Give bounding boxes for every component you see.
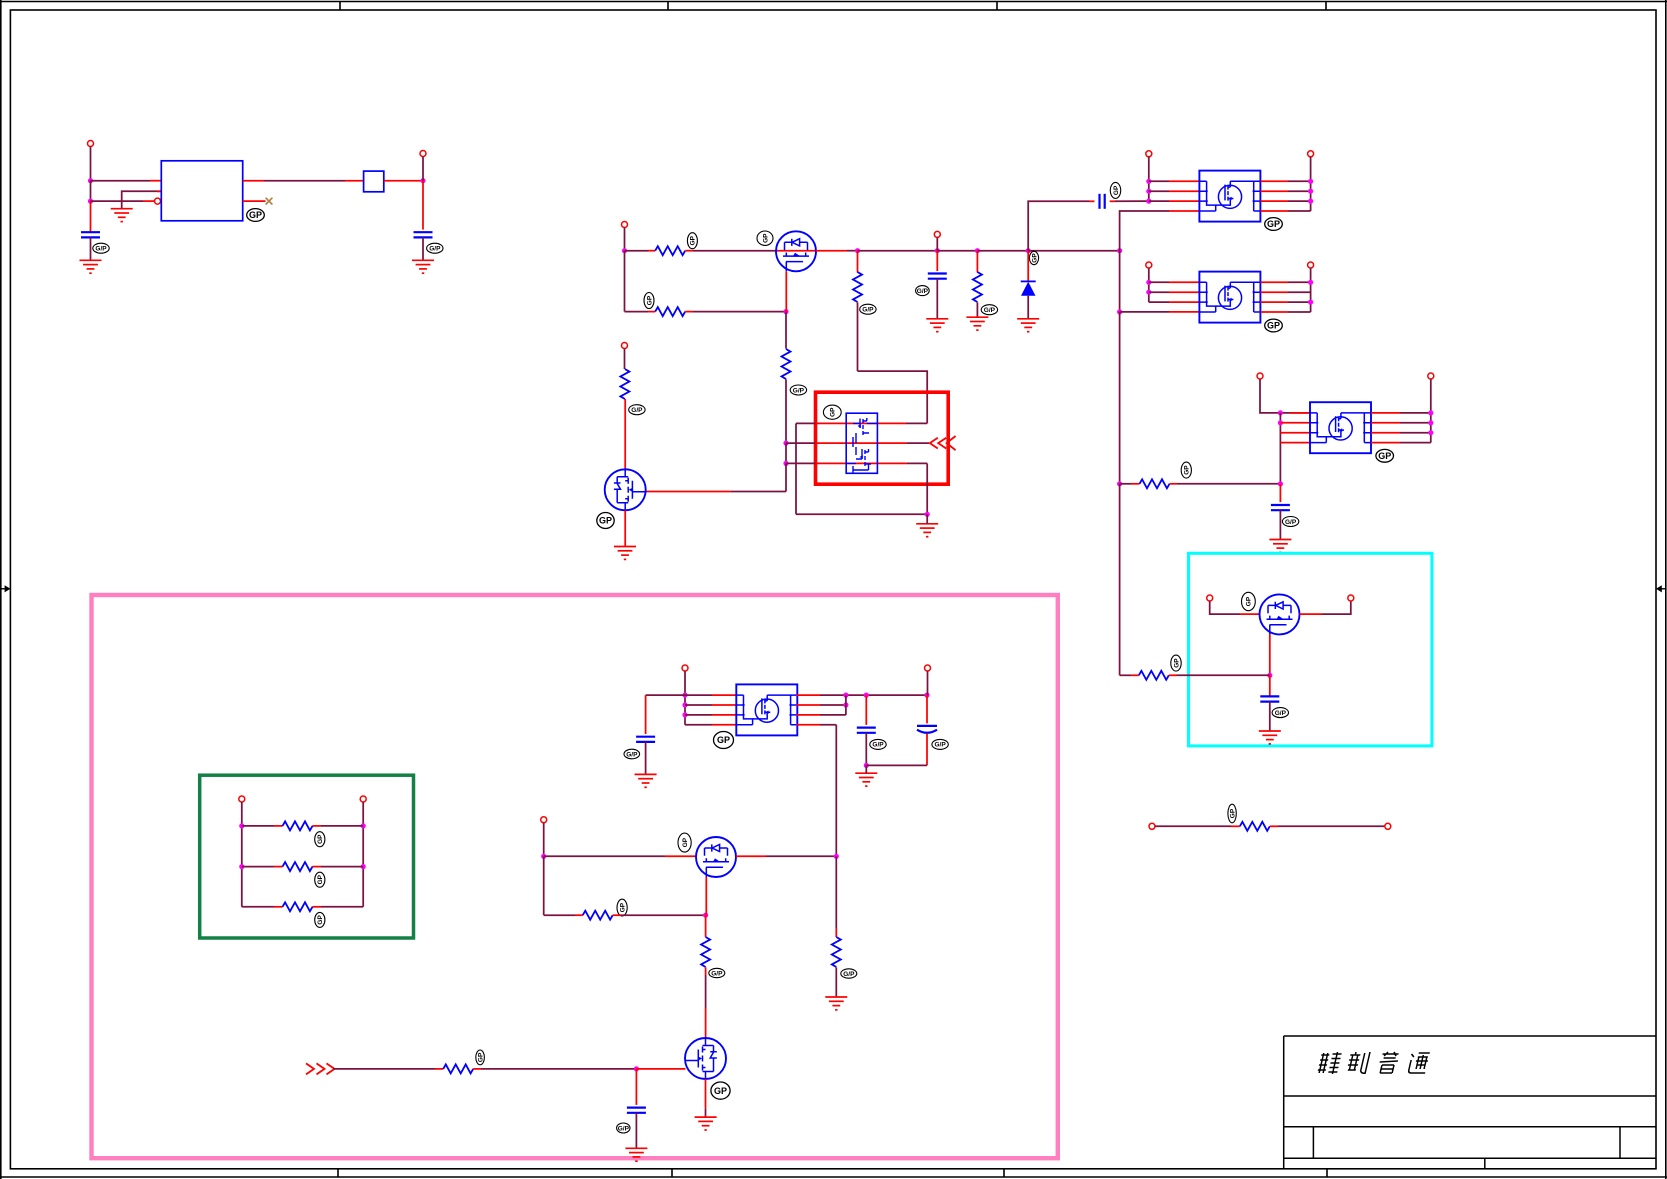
svg-text:GP: GP [1031, 253, 1038, 263]
junction [783, 441, 788, 446]
ground [1259, 731, 1281, 744]
label R13 [841, 969, 857, 978]
junction [361, 823, 366, 828]
wire to R2 [625, 311, 649, 313]
label C5 [1282, 517, 1298, 527]
wire U1 pin row 1 [91, 180, 151, 182]
offpage connector arrows in [306, 1063, 335, 1074]
highlight box pink [92, 595, 1058, 1158]
label C10 [617, 1123, 630, 1133]
ground [695, 1117, 717, 1130]
svg-text:G/P: G/P [631, 407, 643, 414]
wire row3 [242, 906, 274, 908]
wire pkg3 left pin2 [1280, 422, 1310, 424]
wire main bus right of Q1 [816, 250, 847, 252]
wire Q3 source down [705, 877, 707, 915]
wire pkg3 right pin4 [1371, 442, 1400, 444]
label D1 [1029, 251, 1038, 264]
svg-text:GP: GP [1267, 219, 1280, 229]
junction [682, 693, 687, 698]
wire [1310, 268, 1312, 312]
ground [625, 1148, 647, 1161]
ground [111, 209, 133, 222]
wire pkg4 right pin2 [796, 704, 820, 706]
junction [1428, 410, 1433, 415]
wire left rail down [624, 251, 626, 312]
wire pkg4 right pin1 [796, 694, 820, 696]
wire pkg4 left pin2 [685, 704, 712, 706]
wire [90, 237, 92, 260]
wire C4 to pkg1 node [1110, 200, 1115, 202]
label GP U6 [714, 732, 734, 749]
resistor R6 [1140, 479, 1170, 488]
junction [239, 823, 244, 828]
junction [864, 693, 869, 698]
wire [624, 349, 626, 370]
wire gnd link [866, 764, 927, 766]
resistor R12 [283, 902, 313, 911]
ground [825, 997, 847, 1010]
wire pkg1 left pin3 [1149, 200, 1169, 202]
wire through Q1 [776, 250, 816, 252]
svg-text:GP: GP [1246, 596, 1253, 606]
wire C9 branch [926, 695, 928, 723]
wire U1 pin row 2 to ground [122, 191, 162, 208]
wire [927, 671, 929, 695]
wire [1300, 613, 1323, 615]
wire [422, 181, 424, 230]
wire Q2 drain to rail [646, 491, 731, 493]
wire [624, 510, 626, 546]
wire pkg4 left pin4 [685, 724, 712, 726]
offpage connector arrows [930, 436, 956, 450]
junction [622, 248, 627, 253]
wire R8 row [1120, 674, 1131, 676]
ground [966, 317, 988, 330]
junction [1117, 309, 1122, 314]
wire [926, 514, 928, 524]
optocoupler U4 [1310, 402, 1371, 453]
wire pkg3 left pin4 [1280, 442, 1310, 444]
label GP U1 [247, 209, 265, 222]
wire to red box [858, 371, 928, 423]
power terminal P6 [1308, 151, 1314, 157]
wire pkg4 left pin1 [646, 694, 712, 696]
wire [977, 250, 1028, 252]
wire [1430, 379, 1432, 443]
label C7 [624, 749, 640, 759]
power terminal P18 [682, 665, 688, 671]
junction [1428, 430, 1433, 435]
junction [925, 512, 930, 517]
capacitor C5 [1271, 505, 1290, 510]
svg-text:GP: GP [830, 407, 837, 417]
junction [1308, 199, 1313, 204]
wire pkg3 right pin2 [1371, 422, 1400, 424]
wire [1169, 674, 1177, 676]
wire [543, 856, 545, 915]
terminal P16 [239, 796, 245, 802]
junction [864, 763, 869, 768]
power terminal P5 [1146, 151, 1152, 157]
wire pkg3 right pin3 [1371, 432, 1400, 434]
label R10 [315, 832, 325, 847]
junction [420, 178, 425, 183]
vertical bus x1119 [1119, 251, 1121, 312]
label C9 [932, 739, 948, 749]
label R3 [860, 304, 876, 314]
wire dual-fet mid row [786, 442, 816, 444]
wire pkg3 right pin1 [1371, 412, 1400, 414]
transistor Q1 [776, 231, 816, 271]
wire [645, 742, 647, 775]
wire C8 branch [865, 695, 867, 725]
svg-text:G/P: G/P [862, 307, 874, 314]
resistor R4 [782, 349, 791, 379]
wire [1148, 268, 1150, 302]
resistor R1 [655, 246, 685, 255]
label C2 [427, 243, 443, 253]
ground [635, 774, 657, 787]
wire C10 branch [635, 1069, 637, 1105]
svg-text:G/P: G/P [95, 246, 107, 253]
power terminal P13 [1348, 595, 1354, 601]
junction [855, 248, 860, 253]
transistor Q4 [685, 1038, 726, 1079]
resistor R3 [853, 272, 862, 302]
transistor Q5 [1260, 594, 1300, 634]
label GP Q2 [597, 513, 614, 529]
wire Q3 gate row [544, 855, 665, 857]
wire left rail [241, 802, 243, 907]
wire R3 down [857, 302, 859, 371]
label C1 [93, 243, 109, 253]
label R14 [617, 899, 627, 916]
wire R13 drop [835, 856, 837, 928]
label R15 [709, 968, 725, 977]
svg-text:GP: GP [317, 834, 324, 844]
wire [785, 379, 787, 443]
junction [924, 693, 929, 698]
ground [412, 260, 434, 273]
wire Q4 gate row [333, 1068, 435, 1070]
wire [543, 823, 545, 857]
wire [705, 1079, 707, 1109]
wire [937, 250, 977, 252]
wire [976, 302, 978, 317]
wire pkg1 right pin2 [1261, 190, 1289, 192]
wire pkg2 left pin2 [1149, 291, 1169, 293]
wire pkg4 right pin3 [796, 714, 820, 716]
power terminal P8 [1308, 262, 1314, 268]
junction [1267, 673, 1272, 678]
junction [361, 864, 366, 869]
resistor R2 [655, 307, 685, 316]
wire Q1 gate [785, 271, 787, 311]
label R1 [687, 233, 697, 249]
resistor R5 [973, 272, 982, 302]
label GP Q4 [711, 1082, 730, 1099]
dual MOSFET U5 block [846, 413, 877, 474]
wire left return [795, 423, 797, 514]
svg-text:G/P: G/P [843, 971, 855, 978]
label C8 [870, 739, 886, 749]
label R6 [1181, 462, 1191, 478]
wire [624, 228, 626, 251]
wire dual-fet top row [796, 422, 816, 424]
wire [1170, 483, 1178, 485]
svg-text:GP: GP [1229, 808, 1236, 818]
wire right rail [362, 802, 364, 907]
label C4 [1110, 182, 1120, 198]
svg-text:G/P: G/P [618, 1125, 630, 1132]
wire [785, 443, 787, 463]
junction [843, 702, 848, 707]
label U5 [823, 405, 841, 419]
junction [1308, 300, 1313, 305]
svg-text:G/P: G/P [1285, 519, 1297, 526]
wire R1 to Q1 [685, 250, 693, 252]
resistor R16 [443, 1064, 473, 1073]
wire to R1 [625, 250, 649, 252]
terminal P15 [1385, 823, 1391, 829]
wire [835, 967, 837, 997]
junction [1278, 481, 1283, 486]
ground [1017, 319, 1039, 332]
svg-text:GP: GP [646, 295, 653, 305]
junction [1308, 179, 1313, 184]
optocoupler U3 [1199, 272, 1260, 323]
wire [1119, 484, 1121, 676]
svg-text:G/P: G/P [917, 288, 929, 295]
ground [926, 319, 948, 332]
junction [682, 702, 687, 707]
capacitor C7 [636, 737, 655, 742]
junction [975, 248, 980, 253]
wire cap branch [1269, 675, 1271, 696]
wire [785, 463, 787, 491]
junction [1308, 280, 1313, 285]
junction [239, 864, 244, 869]
wire diode branch [1027, 251, 1029, 282]
svg-text:G/P: G/P [429, 246, 441, 253]
svg-text:GP: GP [599, 516, 612, 526]
wire pkg2 right pin3 [1261, 301, 1289, 303]
svg-text:GP: GP [1184, 465, 1191, 475]
wire [624, 399, 626, 469]
capacitor C1 [81, 232, 100, 237]
svg-text:GP: GP [317, 874, 324, 884]
wire pkg4 right pin4 [796, 724, 820, 726]
wire [636, 1068, 685, 1070]
capacitor C10 [627, 1108, 646, 1113]
label Q5 [1242, 592, 1256, 610]
no-connect X [266, 198, 273, 205]
label GP U4 [1376, 449, 1394, 462]
junction [1146, 179, 1151, 184]
power terminal P3 [622, 222, 628, 228]
svg-text:GP: GP [477, 1052, 484, 1062]
junction [1146, 189, 1151, 194]
junction [783, 461, 788, 466]
resistor R3 branch [857, 251, 859, 273]
wire pkg2 right pin1 [1261, 281, 1289, 283]
power terminal P2 [420, 151, 426, 157]
label R12 [315, 912, 325, 927]
wire cap branch [1279, 484, 1281, 502]
wire row2 Q3 [544, 914, 575, 916]
wire pin bus [1279, 413, 1281, 484]
label R11 [315, 872, 325, 887]
power terminal P4 [934, 231, 940, 237]
svg-text:G/P: G/P [872, 742, 884, 749]
wire [473, 1068, 481, 1070]
optocoupler U6 [736, 684, 797, 735]
svg-text:G/P: G/P [711, 970, 723, 977]
wire [422, 237, 424, 260]
wire [1119, 312, 1121, 484]
wire [613, 914, 621, 916]
wire R6 row [1120, 483, 1131, 485]
wire R5 branch [976, 251, 978, 273]
wire row2 [242, 866, 274, 868]
wire pkg1 left pin2 [1149, 190, 1169, 192]
wire [1155, 825, 1231, 827]
optocoupler U2 [1199, 171, 1260, 222]
wire pkg1 left pin4 [1120, 211, 1169, 251]
highlight box red [816, 392, 949, 484]
title block [1284, 1036, 1656, 1169]
right edge center arrow [1656, 585, 1666, 592]
wire [1148, 157, 1150, 201]
power terminal P12 [1207, 595, 1213, 601]
junction [935, 248, 940, 253]
label R4 [790, 385, 806, 395]
transistor Q2 [605, 469, 646, 510]
junction [1026, 248, 1031, 253]
wire pkg1 right pin1 [1261, 180, 1289, 182]
wire [1310, 157, 1312, 211]
power terminal P1 [88, 141, 94, 147]
company name text [1317, 1052, 1430, 1074]
junction [1278, 420, 1283, 425]
junction [541, 854, 546, 859]
capacitor C4 [1100, 194, 1105, 209]
capacitor C6 [1260, 696, 1279, 701]
label R9 [1228, 804, 1237, 823]
svg-text:GP: GP [619, 902, 626, 912]
junction [634, 1066, 639, 1071]
svg-text:GP: GP [1113, 185, 1120, 195]
resistor R13 [832, 937, 841, 967]
wire pkg1 right pin4 [1261, 210, 1289, 212]
wire [90, 201, 92, 232]
wire Q3 right [736, 855, 766, 857]
wire vertical left rail [90, 147, 92, 181]
wire pin4 drop [835, 725, 837, 857]
wire pin2-3 bus [845, 695, 847, 715]
wire up to C4 row [1028, 201, 1089, 250]
wire [865, 733, 867, 766]
wire [422, 157, 424, 181]
terminal P14 [1149, 823, 1155, 829]
label R7 [629, 405, 645, 415]
wire pkg4 left pin3 [685, 714, 712, 716]
ground [855, 773, 877, 786]
wire [936, 279, 938, 319]
label GP U2 [1265, 218, 1283, 231]
svg-text:GP: GP [762, 233, 769, 243]
wire [1260, 379, 1310, 413]
resistor R9 [1240, 822, 1270, 831]
wire U1 output no-connect [243, 200, 266, 202]
capacitor C2 [414, 232, 433, 237]
svg-text:GP: GP [714, 1086, 727, 1096]
label R5 [981, 305, 997, 315]
wire R2 to gate node [685, 311, 693, 313]
wire U1 to F1 [243, 180, 264, 182]
highlight box green [200, 775, 414, 938]
resistor R10 [283, 821, 313, 830]
wire [1269, 702, 1271, 731]
junction [1146, 290, 1151, 295]
wire bottom row [796, 513, 927, 515]
wire [635, 1113, 637, 1149]
wire [684, 671, 686, 725]
wire right drop [926, 463, 928, 514]
junction [682, 712, 687, 717]
left edge center arrow [1, 585, 11, 592]
terminal P17 [360, 796, 366, 802]
wire pkg2 left pin4 [1120, 311, 1169, 313]
power terminal P9 [1257, 373, 1263, 379]
junction [703, 913, 708, 918]
wire U1 pin row 3 [91, 200, 144, 202]
junction [1146, 280, 1151, 285]
wire F1 to node [384, 180, 423, 182]
wire [865, 765, 867, 773]
junction [843, 693, 848, 698]
wire pkg2 right pin4 [1261, 311, 1289, 313]
wire dual-fet low row [786, 462, 816, 464]
junction [1428, 420, 1433, 425]
open pin circle [155, 198, 161, 204]
power terminal P11 [622, 343, 628, 349]
svg-text:GP: GP [249, 210, 262, 220]
wire row1 [242, 825, 274, 827]
wire pkg1 right pin3 [1261, 200, 1289, 202]
wire pkg3 left pin3 [1280, 432, 1310, 434]
capacitor C9 polarized [917, 726, 937, 733]
junction [1117, 248, 1122, 253]
svg-text:GP: GP [1378, 451, 1391, 461]
svg-text:GP: GP [317, 915, 324, 925]
svg-text:GP: GP [682, 837, 689, 847]
resistor R7 [620, 369, 629, 399]
junction [88, 199, 93, 204]
wire [90, 181, 92, 201]
wire [1027, 296, 1029, 319]
ground [916, 524, 938, 537]
resistor R11 [283, 862, 313, 871]
wire pin1 cap branch [645, 695, 647, 734]
diode D1 [1021, 281, 1036, 295]
ground [80, 260, 102, 273]
label R16 [476, 1050, 485, 1065]
svg-text:GP: GP [1267, 321, 1280, 331]
wire pkg1 left pin1 [1149, 180, 1169, 182]
capacitor C8 [857, 728, 876, 733]
